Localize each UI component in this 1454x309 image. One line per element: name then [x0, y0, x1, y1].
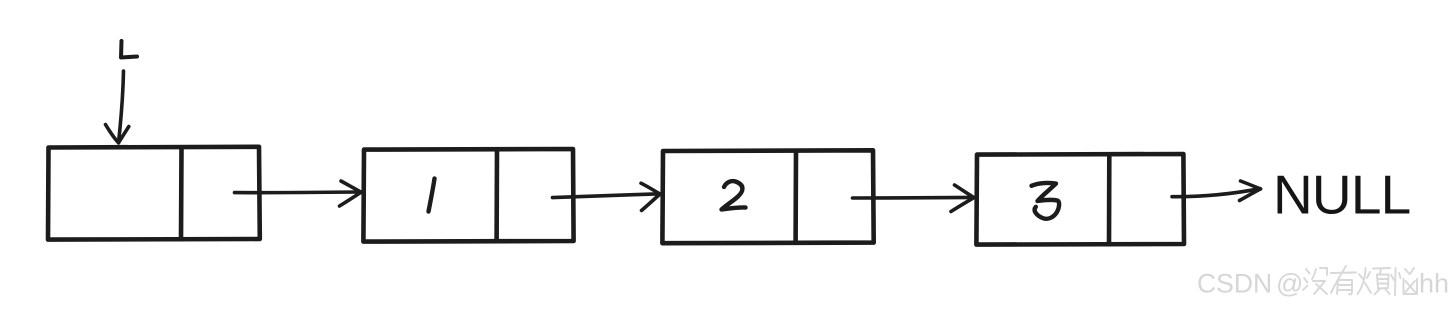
watermark glyph 烦	[1358, 268, 1391, 295]
node box 4 divider	[1107, 154, 1112, 244]
watermark glyph 没	[1303, 268, 1327, 294]
svg-text:hh: hh	[1419, 269, 1449, 299]
arrow L to head node	[106, 71, 129, 143]
node box 1 (head node)	[48, 147, 260, 240]
watermark glyph 有	[1331, 266, 1356, 294]
watermark glyph 恼	[1391, 268, 1417, 295]
arrow node4 to NULL	[1172, 181, 1261, 201]
svg-text:@: @	[1276, 269, 1303, 299]
svg-text:NULL: NULL	[1273, 164, 1410, 226]
node box 2 divider	[494, 149, 499, 241]
node box 1 divider	[179, 147, 184, 239]
node box 2	[363, 149, 573, 242]
value 2 in node 3	[722, 181, 746, 209]
value 1 in node 2	[429, 179, 435, 212]
label L	[121, 41, 137, 58]
arrow node3 to node4	[853, 185, 975, 212]
node box 3 divider	[793, 151, 798, 243]
arrow node2 to node3	[553, 183, 661, 210]
svg-text:CSDN: CSDN	[1197, 269, 1272, 299]
node box 4	[976, 154, 1184, 245]
arrow node1 to node2	[235, 181, 362, 206]
value 3 in node 4	[1032, 183, 1060, 219]
node box 3	[662, 150, 873, 243]
